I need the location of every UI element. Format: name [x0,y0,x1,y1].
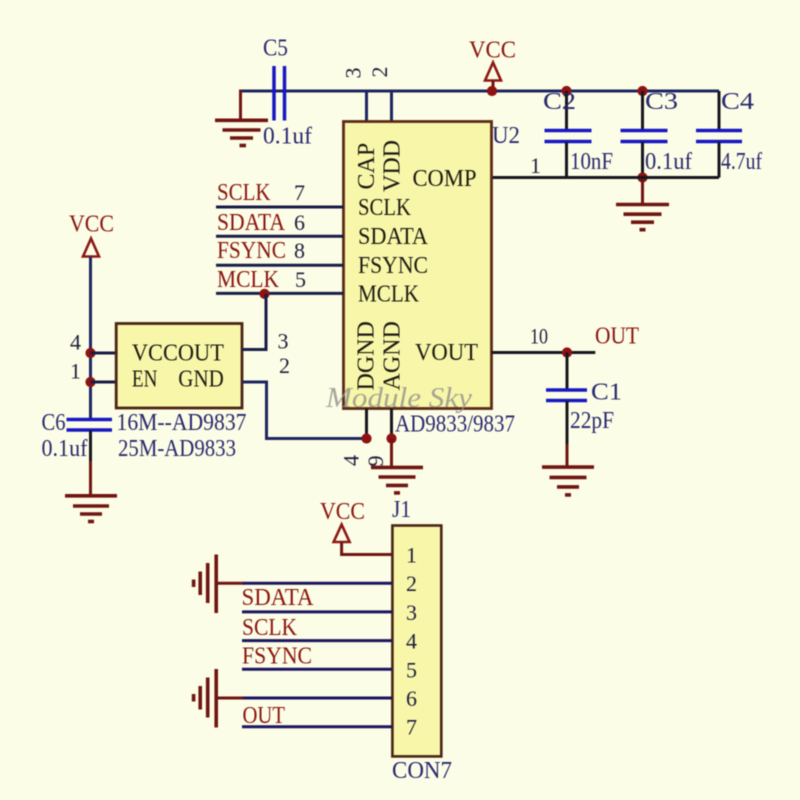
svg-text:SDATA: SDATA [242,585,315,611]
svg-text:VCC: VCC [469,38,516,64]
junction U2 pin4 node [361,433,371,443]
wire J1 pin6 net [243,697,392,700]
svg-text:Module Sky: Module Sky [325,382,472,414]
junction VOUT node [562,347,572,357]
wire J1 pin2 ground stub [216,582,244,585]
svg-text:J1: J1 [392,497,411,523]
svg-text:FSYNC: FSYNC [358,253,428,279]
capacitor C2 [545,131,592,142]
junction C3 bottom [637,172,647,182]
junction MCLK node [259,289,269,299]
svg-text:2: 2 [406,571,417,596]
ground J1 pin6 (rotated) [194,669,217,728]
svg-text:0.1uf: 0.1uf [645,149,692,175]
svg-text:SCLK: SCLK [217,180,271,206]
junction C3 top [637,86,647,96]
svg-text:0.1uf: 0.1uf [263,124,312,150]
wire U2 pin2 top [390,91,393,122]
svg-text:22pF: 22pF [570,408,614,434]
wire C1 ground drop [566,444,569,467]
svg-text:2: 2 [279,353,290,378]
svg-text:1: 1 [406,543,417,568]
junction module pin1 [85,377,95,387]
wire module pin2 to AGND node [242,382,367,439]
svg-text:C6: C6 [42,410,66,436]
svg-text:10: 10 [530,323,548,348]
wire J1 pin2 net [243,582,392,585]
svg-text:EN: EN [132,367,158,393]
svg-text:SCLK: SCLK [358,195,412,221]
wire J1 pin7 net [242,725,392,728]
wire J1 pin1 from VCC [342,543,393,555]
svg-text:OUT: OUT [595,323,639,349]
svg-text:VDD: VDD [380,140,406,192]
svg-text:VOUT: VOUT [415,340,478,366]
svg-text:AD9833/9837: AD9833/9837 [395,412,515,438]
ground under C6 [65,496,117,522]
ground under U2 [371,467,423,493]
svg-text:3: 3 [278,329,289,354]
wire SDATA net [216,235,344,238]
svg-text:4.7uf: 4.7uf [721,149,762,175]
wire MCLK net [216,292,344,295]
ground under C3 [616,205,669,230]
svg-text:6: 6 [406,686,417,711]
wire J1 pin3 net [242,610,392,613]
wire J1 pin5 net [242,668,392,671]
svg-text:SDATA: SDATA [358,224,429,250]
wire C6 bottom [89,431,92,464]
svg-text:4: 4 [70,330,81,355]
svg-text:C2: C2 [543,89,576,115]
svg-text:6: 6 [294,210,305,235]
capacitor C6 [67,420,113,431]
wire COMP pin1 rail [492,176,719,179]
svg-text:3: 3 [341,68,366,79]
wire module pin1 [91,381,117,384]
wire C3 bottom stub [641,142,644,178]
svg-text:3: 3 [406,600,417,625]
junction VCC top rail [487,86,497,96]
wire module pin4 [91,352,117,355]
connector J1 body [392,526,441,757]
svg-text:9: 9 [363,456,388,467]
wire C2 top stub [565,91,568,130]
wire VCC left rail [89,257,92,420]
wire U2 pin3 top [365,91,368,122]
svg-text:4: 4 [406,629,417,654]
svg-text:VCC: VCC [320,499,365,525]
module VCCOUT body [116,324,242,409]
svg-text:4: 4 [339,455,364,466]
svg-text:SDATA: SDATA [217,210,286,236]
svg-text:1: 1 [70,359,81,384]
svg-text:16M--AD9837: 16M--AD9837 [117,410,247,436]
svg-text:AGND: AGND [380,321,406,390]
wire module pin3 to MCLK [242,294,266,350]
svg-text:5: 5 [406,657,417,682]
svg-text:1: 1 [530,153,541,178]
ground under C1 [542,467,594,495]
capacitor C5 [274,66,285,121]
svg-text:FSYNC: FSYNC [242,644,312,670]
power VCC top [485,63,501,92]
svg-text:MCLK: MCLK [358,282,420,308]
svg-text:10nF: 10nF [570,149,613,175]
wire VOUT net [492,351,596,354]
wire SCLK net [216,206,344,209]
svg-text:C1: C1 [591,380,622,406]
wire J1 pin6 ground stub [216,697,244,700]
wire FSYNC net [216,264,344,267]
capacitor C4 [696,131,742,142]
svg-text:7: 7 [294,180,305,205]
power VCC left [83,239,99,257]
svg-text:GND: GND [178,367,224,393]
svg-text:VCC: VCC [69,212,114,238]
svg-text:C3: C3 [645,89,678,115]
svg-text:C5: C5 [263,36,288,62]
wire C3 top stub [641,91,644,130]
svg-text:2: 2 [367,67,392,78]
junction C2 top [561,86,571,96]
capacitor C3 [621,131,668,142]
svg-text:COMP: COMP [413,166,477,192]
svg-text:FSYNC: FSYNC [217,238,286,264]
svg-text:U2: U2 [492,123,520,149]
wire U2 pin4 bottom [365,409,368,439]
wire C1 bottom [566,401,569,446]
wire C6 ground drop [89,461,92,495]
svg-text:0.1uf: 0.1uf [42,436,88,462]
ground under C5 [215,120,268,145]
svg-text:C4: C4 [721,89,754,115]
svg-text:CAP: CAP [354,143,380,190]
wire C5 ground drop [239,90,242,120]
wire C2 bottom stub [565,142,568,178]
wire C1 top stub [566,353,569,391]
svg-text:25M-AD9833: 25M-AD9833 [118,436,236,462]
junction module pin4 [85,348,95,358]
svg-text:8: 8 [294,238,305,263]
svg-text:VCCOUT: VCCOUT [132,341,224,367]
capacitor C1 [546,390,587,401]
wire top rail C5 to C4 [241,90,720,93]
svg-text:MCLK: MCLK [217,267,280,293]
power VCC J1 [334,525,350,543]
wire U2 pin9 bottom [390,409,393,439]
svg-text:7: 7 [406,715,417,740]
svg-text:DGND: DGND [354,321,380,390]
junction U2 pin9 node [386,433,396,443]
wire J1 pin4 net [242,639,392,642]
wire U2 ground drop [390,439,393,468]
ic U2 body [344,122,492,409]
ground J1 pin2 (rotated) [194,555,217,614]
svg-text:CON7: CON7 [392,758,452,784]
wire C3 ground drop [641,178,644,205]
svg-text:5: 5 [295,267,306,292]
svg-text:OUT: OUT [243,703,286,729]
svg-text:SCLK: SCLK [242,615,298,641]
wire C4 bottom stub [718,142,721,178]
wire C4 top stub [718,91,721,130]
